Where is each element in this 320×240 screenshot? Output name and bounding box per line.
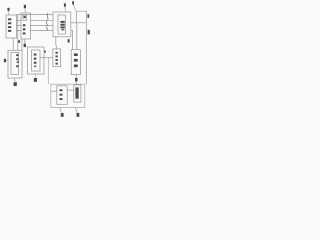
block 9 inner box B <box>74 85 81 102</box>
reference numeral above block2 <box>24 5 26 8</box>
block6 item d <box>56 63 58 65</box>
leader line below block5 <box>34 74 36 78</box>
reference numeral below block8 <box>14 82 17 86</box>
wire block2 bottom-left down to block8 <box>21 39 23 50</box>
wire bus 2-3 d <box>31 29 54 31</box>
block4 item b <box>60 24 64 26</box>
reference numeral right of vertical wire lower <box>88 30 90 35</box>
reference numeral below block9 left <box>61 113 64 117</box>
leader line for numeral above block3 <box>64 7 67 12</box>
reference numeral below block5 <box>34 78 37 82</box>
wire right vertical into block7 <box>76 23 78 50</box>
reference numeral above block3 <box>64 3 66 6</box>
block2 item a <box>23 24 26 26</box>
wire block7 bottom to block9 <box>75 75 77 85</box>
block 4 inner outline <box>58 15 66 34</box>
block2 item b <box>23 28 26 30</box>
block8 item b <box>16 58 18 60</box>
block5 item a <box>34 54 37 56</box>
leader line below block8 <box>14 78 15 82</box>
wire bus 1-2 b <box>17 24 22 26</box>
block7 item a <box>74 53 78 56</box>
block6 item b <box>56 55 58 57</box>
block4 item c <box>60 26 64 28</box>
squiggle mark between bus wires a <box>46 13 49 20</box>
reference numeral below block9 right <box>77 113 80 117</box>
reference numeral below block2 left <box>18 40 20 43</box>
leader line for numeral left of block8 <box>6 59 8 61</box>
reference numeral top-right <box>72 1 74 4</box>
block4 item a <box>60 21 64 23</box>
leader line for numeral above block1 <box>8 11 10 15</box>
block9A item c <box>60 98 63 100</box>
block5 item b <box>34 58 37 60</box>
block1 item d <box>8 30 11 32</box>
wire bus 1-2 c <box>17 29 22 31</box>
block7 item b <box>74 59 78 62</box>
wire block3 bottom down to block6 <box>56 37 57 49</box>
wire vertical beside block1 <box>17 14 19 50</box>
block 5 outer outline <box>28 47 45 74</box>
arrowhead below block2 <box>24 44 26 47</box>
block1 item a <box>8 18 11 20</box>
wire block2 bottom down to block5 arrow <box>24 39 26 44</box>
block 8 outer outline <box>8 50 22 78</box>
block8 arrow to the right <box>17 61 20 63</box>
squiggle mark between bus wires b <box>45 21 48 26</box>
block1 item c <box>8 26 11 28</box>
block 6 outline <box>53 49 61 67</box>
block 5 inner outline <box>32 50 41 71</box>
wire block3 right to far-right vertical <box>71 22 87 24</box>
block5 item c <box>34 62 37 64</box>
reference numeral right of vertical wire upper <box>87 14 89 18</box>
block1 item b <box>8 22 11 24</box>
block9A item b <box>60 94 63 96</box>
block 7 outline <box>71 50 80 75</box>
block 9 inner box A <box>57 86 67 105</box>
reference numeral above block1 <box>7 8 9 11</box>
reference numeral right of block5 <box>44 51 46 53</box>
block6 item a <box>56 52 58 54</box>
block5 item d faint <box>34 65 36 67</box>
block2 sub-box dark top <box>24 16 26 18</box>
leader line below block9 left <box>60 107 61 112</box>
block 1 outline <box>6 15 17 38</box>
wire tick inside block9 middle <box>67 89 74 91</box>
block 9 outer outline <box>51 84 85 107</box>
wire bus 2-3 c <box>31 24 54 26</box>
block 2 inner sub-box <box>23 15 27 20</box>
block4 item d faint <box>61 29 64 31</box>
wire far-right vertical down to block9 <box>85 11 87 84</box>
wire bus 2-3 b <box>31 19 54 21</box>
leader line for numeral above block2 <box>24 8 27 12</box>
wire tick inside block9 left <box>51 90 57 92</box>
wire top-right upper <box>76 11 86 23</box>
block8 item c <box>16 65 18 67</box>
squiggle mark between bus wires c <box>46 26 49 30</box>
reference numeral left of block7 wires <box>68 39 70 42</box>
leader line below block9 right <box>76 107 77 112</box>
leader line for numeral top-right <box>73 5 76 11</box>
block9B dark content bar <box>75 87 78 98</box>
wire block5 to block6 <box>40 57 53 59</box>
wire junction down to block9 faint <box>47 58 49 84</box>
block7 item c <box>74 65 78 68</box>
wire block3 right to block7 <box>71 30 73 49</box>
block 2 outline <box>21 13 31 39</box>
arrowhead below block7 <box>75 78 78 81</box>
block2 item c <box>23 32 26 34</box>
wire bus 2-3 a <box>17 13 54 15</box>
wire bus 1-2 a <box>17 19 22 21</box>
block 8 inner outline <box>11 52 19 74</box>
block8 item a <box>16 54 18 56</box>
block9A item a <box>60 89 63 91</box>
wire block1 bottom down to block8 <box>12 38 14 50</box>
block 3 outer outline <box>53 12 71 37</box>
block6 item c <box>56 59 58 61</box>
reference numeral left of block8 <box>4 59 6 62</box>
